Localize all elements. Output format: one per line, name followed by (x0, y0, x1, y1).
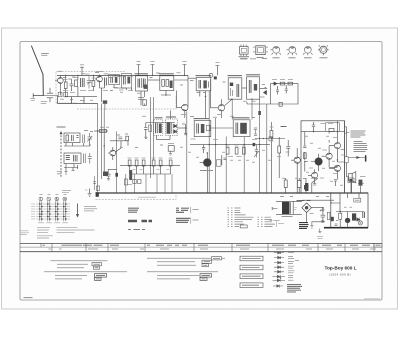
resistor R10 (126, 136, 129, 141)
semiconductor list rows (228, 207, 241, 209)
box B blob (127, 77, 130, 84)
box A blob (115, 77, 118, 83)
LW-MW dashed selector line (60, 132, 62, 177)
resistor on d1 (124, 179, 127, 185)
TB1 wires (347, 212, 349, 228)
transistor T1 (FM RF amp) (57, 78, 63, 84)
bus wire k (259, 99, 261, 193)
pointer line to annotation (345, 132, 350, 134)
comp box dark (304, 185, 308, 190)
TO4 label (320, 57, 328, 59)
T5 area wires (110, 141, 128, 148)
switch matrix footnotes (37, 227, 95, 238)
wire inside top (301, 121, 345, 143)
trim cap C2 (87, 76, 92, 89)
dense note block row8 (287, 284, 302, 292)
earphone jack branch (348, 155, 366, 161)
wire right of Fi2 (174, 75, 188, 106)
bypass box B2 (64, 92, 68, 97)
band vertical ticks (41, 243, 374, 251)
IC2 label (257, 57, 264, 59)
speaker sub label (358, 184, 364, 186)
package symbol IC2 (256, 46, 265, 55)
bridge wires (299, 201, 325, 222)
variant box 4 (240, 283, 263, 288)
af area resistor RA2 (278, 146, 281, 153)
T10 leads (329, 168, 337, 179)
v labels (226, 145, 246, 147)
ratio detector box Fi7 (165, 119, 177, 135)
AM transformer Fi3 box (196, 78, 211, 91)
earth symbol left (88, 189, 92, 197)
mains lead arrow (272, 208, 278, 209)
bus wire h (231, 99, 233, 119)
wire det out (178, 127, 187, 129)
diode row 7 (273, 279, 286, 282)
comp near battery (359, 180, 363, 186)
Fi2 label (159, 73, 174, 75)
T12 leads (291, 148, 297, 193)
L3 right comps (83, 133, 93, 143)
input terminal label (31, 99, 36, 101)
wires below Fi1 (138, 91, 145, 106)
battery connector fill (349, 179, 352, 182)
resistor V2 (235, 148, 238, 155)
T8 leads (322, 146, 330, 168)
small box on AGC bottom (279, 102, 282, 106)
T2 leads (95, 75, 100, 88)
IF transformer Fi1 box (136, 76, 148, 91)
band right end box (374, 243, 382, 247)
bypass box B1 (58, 92, 62, 97)
audio labels (309, 138, 344, 179)
knob labels (40, 194, 67, 196)
Fi1 bottom blob (144, 85, 148, 89)
vert el under bus a (202, 145, 205, 153)
wire Fi3 down legs (200, 77, 211, 118)
package symbol IC1 (240, 47, 249, 55)
diode row 2 (274, 256, 284, 259)
driver transistor T7 (334, 143, 340, 149)
label above bridge (297, 200, 311, 202)
AM IF strip bus (120, 165, 180, 167)
Fi4 label (228, 75, 243, 77)
IF transformer Fi8 box (194, 121, 211, 137)
matrix row labels (31, 204, 35, 219)
junction dots row1 (65, 75, 116, 98)
selector label (57, 126, 66, 128)
misc labels row2 (191, 139, 258, 157)
left p2 value boxes (95, 274, 107, 281)
jack wire (348, 157, 365, 159)
switch knob S3 (55, 197, 59, 201)
T3 emitter down (184, 111, 186, 118)
T3 base wire (177, 91, 182, 108)
AF preamp transistor T6 (dark) (203, 159, 211, 167)
Fi7 diodes (172, 123, 177, 134)
Fi1 label (135, 73, 149, 75)
bus wire j (251, 99, 253, 119)
wire R1 (65, 75, 67, 96)
junction dots row2 left (97, 130, 105, 146)
IF transformer Fi2 box (160, 76, 174, 91)
Fi7 interior blob (167, 122, 171, 134)
transistor case TO3 (304, 46, 311, 53)
blob TB1 (345, 218, 350, 223)
bridge center blob (305, 206, 308, 209)
transformer right marks (294, 208, 297, 210)
T1 leads (55, 75, 60, 95)
stub above T2 area (80, 67, 84, 75)
pin stub P3 (183, 65, 187, 76)
bus wire g (215, 118, 217, 193)
PSU box bottom dark (324, 227, 368, 229)
drop wire d2 (134, 174, 136, 193)
IC1 label (239, 57, 250, 59)
strip labels (128, 157, 173, 159)
right pB value boxes (200, 274, 212, 281)
ratio detector box Fi6 (154, 120, 163, 136)
wire between Fi4 Fi5 (242, 87, 247, 89)
strip lower marks (133, 169, 170, 171)
value labels row2 (84, 116, 271, 162)
TO3 label (304, 57, 312, 59)
det lower ground (169, 151, 172, 155)
strip lower stubs (130, 166, 171, 174)
list bracket note (275, 221, 277, 227)
margin fold marks (21, 231, 30, 235)
PSU box outline (331, 193, 368, 228)
bus wire i (225, 137, 227, 194)
diode DB1 (357, 218, 360, 222)
bus wire e (186, 112, 188, 194)
psu text block dark (299, 223, 309, 229)
output transistor T12 (294, 157, 300, 163)
resistor RS1 (327, 212, 330, 219)
bus wire l (243, 137, 245, 194)
bus wire f (208, 91, 210, 193)
bus wire c (149, 97, 151, 178)
junction audio (304, 131, 338, 162)
value labels row1 (58, 71, 265, 101)
osc transistor T4 (218, 105, 224, 111)
transistor case TO2 (289, 46, 296, 53)
IF transformer Fi9 box (233, 120, 250, 137)
bottom small symbols (65, 165, 78, 175)
antenna rod (32, 46, 44, 96)
det diode D1 (264, 91, 267, 95)
plus mark CE1 (320, 210, 322, 212)
bias resistor boxed (329, 128, 334, 131)
legend col2 side note b (193, 219, 199, 221)
wires battery (351, 183, 360, 193)
drawing frame border (20, 42, 382, 301)
speaker LS (349, 174, 353, 181)
bias labels (321, 123, 334, 125)
component on bus left (96, 186, 99, 191)
input terminal U30 (33, 94, 43, 98)
coil box L3 (64, 133, 80, 143)
wire ground return front end (58, 96, 98, 104)
switch knob S4 (63, 197, 67, 201)
jack arrow (356, 156, 360, 159)
PSU inner label text (355, 199, 360, 201)
resistor V3 (242, 148, 245, 155)
ratio det feed wire (146, 122, 175, 124)
pin stub P3 label (183, 61, 187, 63)
label cluster T2 (96, 71, 103, 73)
jack bushing (365, 155, 367, 161)
Fi5 label (246, 74, 260, 76)
transformer core bar (289, 202, 291, 214)
legend col2 side note a (193, 209, 199, 211)
drop wire d5 (164, 174, 166, 193)
junction dots psu (266, 192, 352, 212)
comp marks x222 (222, 155, 227, 165)
Fi5 blob (254, 84, 257, 91)
legend column 2 (176, 208, 189, 212)
main ground bus (96, 192, 369, 194)
chassis label (138, 196, 156, 198)
chassis dashed line bottom (96, 194, 177, 200)
wire input to T1 (43, 95, 57, 97)
battery connector box (348, 178, 354, 183)
matrix contacts (39, 203, 67, 220)
bus wire n (103, 110, 105, 135)
diode row 3 (274, 261, 284, 264)
label under trimmer (41, 102, 47, 104)
wire L4 bottom (64, 164, 78, 168)
row2 bus (190, 144, 270, 146)
strip resistor S3 (142, 160, 145, 166)
bus end marker 2 (96, 192, 99, 197)
pin stub P2 label (151, 61, 155, 63)
left paragraph 2 (44, 272, 127, 279)
power transistor T9 (dark) (315, 158, 322, 165)
T6 label (200, 170, 213, 172)
ratio det input cap (144, 123, 148, 139)
stage box Fi5 (247, 77, 260, 99)
wire bus to AM section (188, 77, 196, 79)
Fi6 blob (159, 123, 162, 133)
variant box 3 (240, 274, 263, 279)
coil element label (128, 184, 133, 186)
label BC pair (281, 126, 287, 128)
det ground wires (156, 135, 170, 139)
matrix rows (37, 204, 71, 219)
L4 interior marks (66, 156, 70, 160)
zener row 6 (273, 275, 286, 279)
transformer label (282, 216, 293, 218)
matrix columns (40, 201, 66, 221)
resistor R1 (64, 82, 67, 89)
ground under bridge (310, 222, 313, 228)
Fi8 small box (206, 125, 210, 131)
lamp LB1 (358, 221, 362, 225)
Fi1 core (140, 78, 143, 88)
transistor T5 (110, 150, 116, 156)
wire mesh row1 left (66, 75, 97, 96)
osc trimmer row (94, 130, 108, 132)
wire L3 bottom (64, 143, 90, 146)
stage box Fi4 (osc) (228, 78, 242, 99)
speaker label L30 (360, 176, 366, 178)
T9 leads (311, 154, 319, 171)
special row 8 (273, 285, 283, 288)
drop wire d1 (125, 174, 127, 193)
T5 leads (108, 147, 121, 160)
AGC labels (272, 79, 293, 81)
box A windings (111, 77, 113, 83)
junction dots AM row (205, 96, 253, 100)
comp PH2 boxed (297, 181, 301, 188)
emitter resistor marks (313, 180, 337, 187)
bottom right faint marks (364, 298, 380, 300)
tone feed wire (255, 138, 285, 140)
direction arrow (77, 204, 79, 215)
osc coil L2 (105, 78, 107, 86)
resistor R3 (92, 81, 95, 87)
strip resistor S1 (128, 160, 131, 166)
af labels (270, 127, 290, 157)
FM tuner dashed box (56, 72, 125, 104)
resistor R2 (75, 80, 78, 87)
dark coil element (129, 170, 132, 180)
det top vertical (170, 111, 172, 120)
Fi9 windings (236, 123, 238, 135)
dc rail wire (293, 200, 334, 201)
diode row 4 (274, 266, 284, 269)
RB1 wire (339, 212, 341, 228)
blob near mixer out (103, 100, 107, 103)
box B windings (124, 76, 126, 85)
T4 label (217, 114, 222, 116)
L4 right comps (83, 153, 91, 164)
comp PH3 dark (305, 183, 308, 191)
strip-to-bus drop wires (106, 170, 172, 194)
wire to dark box (305, 178, 307, 193)
note above matrix (62, 191, 71, 193)
capacitor C1 (70, 79, 74, 91)
wire PH1 (285, 178, 287, 193)
legend big symbols row (128, 220, 152, 223)
Fi4 windings (237, 84, 239, 97)
selector arrow head (60, 131, 63, 134)
wire top bus row1 (57, 74, 188, 76)
T7 leads (329, 146, 337, 162)
thermistor (312, 122, 315, 132)
strip resistor S5 (159, 160, 162, 166)
coupling trimmer (47, 88, 53, 102)
strip resistor S2 (135, 160, 138, 166)
box label (168, 143, 174, 145)
regulator resistor RB1 (339, 213, 342, 219)
legend col2 brace b (190, 217, 192, 223)
cap C5 (118, 137, 122, 139)
switch knob S2 (47, 197, 51, 201)
value labels audio block (305, 136, 343, 185)
annotation text block A (351, 131, 366, 137)
L3 interior coil (72, 135, 79, 141)
small branch left of bus (93, 176, 96, 190)
af coupling cap (286, 140, 290, 156)
small box under det (168, 146, 174, 152)
pin stub P4 (215, 66, 219, 76)
antenna label (42, 54, 49, 56)
Fi3 windings (199, 80, 201, 89)
FM IF box B (122, 74, 132, 88)
ground + text below box (318, 229, 321, 233)
vert bars comp (363, 212, 365, 218)
wire to blob (103, 135, 105, 172)
box on tone wire (269, 137, 272, 141)
text under PSU left (317, 236, 323, 238)
AGC diode D2 (273, 82, 277, 85)
transistor T2 (FM mixer) (97, 76, 103, 82)
Fi8 label (194, 118, 210, 120)
wire blob link (101, 88, 105, 110)
speaker connector wires (346, 163, 348, 177)
transistor T8 (326, 153, 332, 159)
stub above label (80, 64, 84, 66)
wire Fi5 right arrow (260, 87, 267, 97)
AGC resistor R8 (288, 82, 293, 85)
small comp right of T6 (216, 160, 221, 166)
svg-text:Top-Boy 600 L: Top-Boy 600 L (325, 266, 357, 271)
branch wire y169.5 (108, 169, 117, 171)
Fi3 blob (203, 80, 206, 88)
Fi3 right tick (208, 82, 210, 88)
wire PH2 (298, 178, 300, 193)
cap on branch (106, 170, 110, 181)
blob on det vertical (258, 111, 261, 115)
tiny value labels row1 (63, 74, 133, 93)
variable cap circle (209, 73, 213, 77)
RA2 wire (278, 137, 280, 178)
FM IF box A (109, 75, 120, 85)
variant box 1 (240, 256, 263, 261)
bus wire a (97, 104, 99, 194)
tuning coil L1 (81, 78, 85, 87)
bridge rectifier GL1 (302, 203, 312, 213)
drop wire d3 (145, 174, 147, 193)
band bottom line (20, 251, 382, 253)
band text row 1 (43, 244, 381, 246)
Fi9 label (233, 117, 250, 119)
battery jack pin 1 (322, 209, 324, 211)
legend col2 brace a (190, 207, 192, 213)
Fi6 label (155, 117, 163, 119)
bridge label (310, 212, 314, 214)
value labels psu row (280, 178, 352, 220)
resistor R9 horizontal (100, 130, 107, 133)
transistor T11 (312, 172, 318, 178)
PSU wires inner (331, 193, 364, 212)
wire Fi1 to Fi2 (148, 79, 160, 81)
speaker wire down (351, 181, 353, 193)
box pair on d2 (133, 180, 136, 184)
det out cap (184, 124, 187, 135)
RA1 wire (270, 122, 272, 193)
band mid line (20, 246, 382, 248)
PSU inner label box (354, 198, 361, 202)
diag wire PH (312, 178, 318, 193)
feedback wire right (345, 121, 347, 193)
strip resistor S4 (152, 160, 155, 166)
dark junction blob (214, 76, 217, 79)
switch knob S1 (39, 197, 43, 201)
Fi2 interior resistor a (162, 80, 165, 87)
